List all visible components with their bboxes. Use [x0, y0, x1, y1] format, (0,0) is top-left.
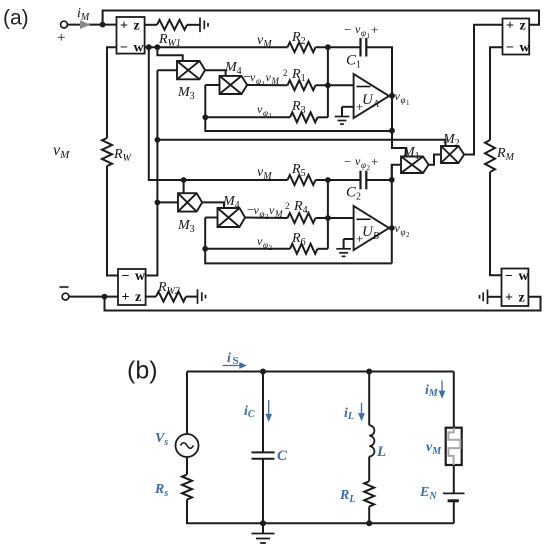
- op-amp UA: [354, 74, 389, 118]
- svg-text:1: 1: [269, 112, 273, 120]
- wire M4 out to R1: [247, 84, 287, 86]
- wire UB plus to ground: [343, 239, 345, 249]
- wire M1 out to M2 in: [429, 155, 441, 165]
- wire vphi vertical left rail: [146, 70, 158, 275]
- node input/top-rail junction: [100, 22, 106, 28]
- svg-text:2: 2: [406, 231, 410, 239]
- svg-text:w: w: [520, 41, 531, 56]
- resistor R5: [288, 175, 316, 185]
- svg-text:M4: M4: [224, 60, 242, 77]
- svg-text:C: C: [277, 448, 288, 464]
- svg-text:i: i: [227, 351, 231, 366]
- wire UB plus input: [344, 238, 354, 240]
- wire M3 out to M4 top input: [205, 70, 226, 76]
- wire vphi2 vertical: [391, 165, 393, 264]
- svg-text:iM: iM: [425, 383, 439, 399]
- wire lower M3 top input: [183, 180, 185, 193]
- svg-text:2: 2: [269, 244, 273, 252]
- op-amp UB: [354, 206, 389, 250]
- svg-text:R4: R4: [293, 199, 308, 216]
- svg-text:(b): (b): [127, 357, 158, 385]
- node vphi2 output: [389, 225, 395, 231]
- resistor RL: [364, 481, 374, 506]
- wire M4 out to R4: [245, 217, 287, 220]
- svg-text:φ: φ: [263, 108, 268, 118]
- node L branch top: [366, 369, 372, 375]
- node inverting input B top: [325, 177, 331, 183]
- node w-1: [146, 44, 152, 50]
- wire C branch bottom: [262, 459, 264, 524]
- wire bottom rail: [105, 297, 541, 311]
- resistor RS: [182, 475, 192, 500]
- conveyor block B3 (-w/+z): [118, 269, 146, 305]
- wire L branch top: [368, 372, 370, 426]
- svg-text:1: 1: [406, 99, 410, 107]
- svg-text:+: +: [506, 18, 514, 33]
- svg-text:w: w: [135, 269, 146, 284]
- wire lower M3 out to M4: [203, 202, 224, 208]
- svg-text:w: w: [134, 41, 145, 56]
- multiplier M4 lower: [218, 208, 246, 227]
- capacitor C2: [361, 171, 367, 190]
- wire UA output: [389, 95, 392, 97]
- node feedback junction A: [389, 128, 395, 134]
- current arrow i_M b: [440, 381, 445, 398]
- wire vphi1 line to M2 top: [157, 140, 445, 146]
- node C branch bottom: [260, 520, 266, 526]
- wire bottom rail b: [187, 500, 454, 524]
- wire UA plus to ground: [341, 107, 343, 117]
- wire R3 to node: [318, 116, 328, 118]
- svg-text:2: 2: [283, 68, 288, 78]
- node C2/M1 junction: [389, 177, 395, 183]
- wire RW2 to ground: [186, 296, 197, 298]
- wire C branch top: [262, 372, 264, 453]
- svg-text:RW: RW: [113, 147, 133, 164]
- node R3 line tap: [202, 114, 208, 120]
- resistor R3: [290, 112, 318, 122]
- wire vphi1 feedback to M4/R3: [205, 85, 392, 131]
- wire vM to M3 top input: [157, 47, 182, 61]
- conveyor block B1 (+z/-w): [117, 17, 145, 56]
- node w-2: [155, 44, 161, 50]
- svg-text:−: −: [122, 269, 130, 284]
- svg-text:iM: iM: [77, 6, 90, 23]
- wire lower M3 left input: [157, 201, 178, 203]
- wire vphi1 to R3: [205, 116, 290, 118]
- svg-text:iL: iL: [344, 406, 354, 422]
- svg-text:−: −: [344, 154, 351, 169]
- wire lower M4 left input: [205, 217, 217, 219]
- capacitor C1: [361, 38, 367, 57]
- svg-text:vM: vM: [426, 440, 442, 457]
- node C branch top: [260, 369, 266, 375]
- wire vphi2 to R6: [205, 248, 290, 250]
- svg-text:M: M: [271, 76, 280, 86]
- inductor L: [369, 425, 374, 456]
- svg-text:φ: φ: [401, 95, 406, 105]
- svg-text:M4: M4: [222, 194, 240, 211]
- wire vM line upper: [145, 46, 288, 48]
- wire VS to RS: [186, 457, 188, 475]
- resistor R1: [288, 80, 316, 90]
- wire B2 w to RM: [490, 47, 503, 140]
- svg-text:1: 1: [367, 32, 371, 40]
- wire inverting node vertical B: [327, 180, 329, 249]
- svg-text:z: z: [520, 18, 526, 33]
- wire vphi2 feedback line: [205, 218, 392, 264]
- svg-text:φ: φ: [256, 76, 261, 86]
- svg-text:2: 2: [367, 164, 371, 172]
- svg-text:+: +: [505, 290, 513, 305]
- resistor R2: [288, 42, 316, 52]
- wire RW1 to ground: [187, 24, 200, 26]
- svg-text:M3: M3: [177, 85, 195, 102]
- input terminal +: [61, 21, 68, 28]
- node lower M3 left input tap: [155, 200, 161, 206]
- ground UB: [336, 249, 351, 257]
- svg-text:RL: RL: [339, 488, 355, 505]
- wire R5 to C2: [316, 179, 361, 181]
- svg-text:C1: C1: [346, 53, 361, 71]
- current arrow i_M: [80, 20, 91, 29]
- wire R2 to C1: [316, 46, 361, 48]
- wire battery to bottom rail: [453, 501, 455, 524]
- wire memristor to battery: [453, 465, 455, 493]
- svg-text:−: −: [505, 269, 513, 284]
- node lower M3 top tap: [181, 177, 187, 183]
- current arrow i_L: [359, 403, 364, 420]
- output terminal -: [62, 293, 69, 300]
- svg-text:C2: C2: [346, 185, 361, 203]
- svg-text:φ: φ: [361, 160, 366, 170]
- wire R4 to op-amp B minus: [316, 217, 354, 219]
- resistor RM: [485, 140, 495, 172]
- multiplier M2: [441, 146, 464, 163]
- current arrow i_S: [223, 363, 246, 368]
- ground UA: [335, 117, 350, 125]
- resistor R6: [290, 244, 318, 254]
- multiplier M4 upper: [220, 76, 248, 94]
- battery EN: [443, 493, 465, 500]
- svg-text:R1: R1: [291, 67, 306, 84]
- wire M1 left input from vphi2 node: [392, 165, 401, 180]
- node R6 tap: [202, 246, 208, 252]
- wire top rail: [103, 11, 539, 25]
- svg-text:−: −: [120, 41, 128, 56]
- wire B1 z to RW1: [145, 24, 157, 26]
- conveyor block B2 (+z/-w): [503, 18, 531, 55]
- wire B1 w left down: [107, 47, 117, 138]
- wire R6 to node: [318, 248, 328, 250]
- node vphi1 tap: [155, 137, 161, 143]
- svg-text:R5: R5: [291, 162, 306, 179]
- svg-text:−: −: [506, 41, 514, 56]
- node inverting B: [325, 215, 331, 221]
- wire R1 to op-amp A minus: [316, 84, 354, 86]
- resistor RW: [102, 138, 112, 166]
- svg-text:EN: EN: [419, 485, 437, 502]
- svg-text:Vs: Vs: [155, 431, 168, 448]
- wire B3 z to RW2: [146, 296, 156, 298]
- node L branch bottom: [366, 520, 372, 526]
- multiplier M3 upper: [177, 61, 205, 79]
- memristor symbol: [446, 428, 462, 465]
- source VS: [176, 434, 199, 457]
- svg-text:+: +: [57, 30, 65, 46]
- svg-text:M1: M1: [402, 145, 420, 162]
- ground b: [262, 523, 264, 533]
- svg-text:φ: φ: [263, 240, 268, 250]
- svg-text:R3: R3: [291, 99, 306, 116]
- svg-text:vM: vM: [257, 33, 272, 50]
- wire RL to bottom: [368, 507, 370, 524]
- svg-text:φ: φ: [401, 227, 406, 237]
- svg-text:+: +: [371, 22, 378, 37]
- svg-text:RM: RM: [496, 146, 515, 163]
- wire top rail b: [187, 371, 454, 373]
- ground (sideways) after RW1: [200, 18, 208, 33]
- svg-text:φ: φ: [361, 28, 366, 38]
- wire RW down to B3 w: [107, 166, 118, 276]
- capacitor C: [252, 452, 275, 458]
- wire inverting node vertical A: [327, 47, 329, 117]
- current arrow i_C: [266, 400, 271, 420]
- wire M4 left input: [205, 84, 219, 86]
- svg-text:M: M: [274, 209, 283, 219]
- ground (sideways) before B4: [480, 290, 488, 305]
- svg-text:vM: vM: [53, 142, 70, 161]
- wire C2 to junction: [366, 179, 392, 181]
- svg-text:−: −: [344, 22, 351, 37]
- wire C1 right / feedback vertical to M1 top: [366, 47, 406, 156]
- svg-text:φ: φ: [260, 209, 265, 219]
- svg-text:M3: M3: [177, 218, 195, 235]
- wire memristor branch top: [453, 372, 455, 428]
- multiplier M1: [401, 157, 429, 174]
- svg-text:RW2: RW2: [157, 280, 180, 297]
- wire ground to B4 z: [488, 296, 502, 298]
- svg-text:z: z: [134, 19, 140, 34]
- wire L to RL: [368, 457, 370, 482]
- wire input to box: [68, 24, 117, 26]
- svg-text:R6: R6: [291, 231, 306, 248]
- svg-text:+: +: [122, 290, 130, 305]
- svg-text:+: +: [371, 154, 378, 169]
- resistor R4: [288, 213, 316, 223]
- svg-text:vM: vM: [257, 165, 272, 182]
- node bottom rail junction: [102, 294, 108, 300]
- wire UA plus input: [342, 106, 354, 108]
- resistor RW2: [156, 292, 186, 302]
- wire M2 out to B2 z: [464, 25, 502, 155]
- node inverting input A top: [325, 44, 331, 50]
- svg-text:w: w: [519, 269, 530, 284]
- multiplier M3 lower: [178, 193, 202, 211]
- wire top to VS: [186, 372, 188, 435]
- ground (sideways) after RW2: [198, 289, 206, 304]
- svg-text:z: z: [519, 290, 525, 305]
- svg-text:Rs: Rs: [154, 482, 168, 499]
- svg-text:+: +: [120, 19, 128, 34]
- conveyor block B4 (-w/+z): [502, 269, 530, 307]
- svg-text:z: z: [135, 290, 141, 305]
- node vphi1 output: [389, 93, 395, 99]
- svg-text:iC: iC: [244, 404, 255, 420]
- wire vM to lower line: [149, 47, 288, 180]
- wire UB output: [389, 227, 392, 229]
- wire M3 left input: [157, 69, 177, 71]
- resistor RW1: [157, 20, 187, 30]
- svg-text:2: 2: [285, 201, 290, 211]
- svg-text:R2: R2: [291, 30, 306, 47]
- svg-text:M2: M2: [442, 132, 460, 149]
- wire terminal to B3 z: [69, 296, 118, 298]
- svg-text:(a): (a): [3, 7, 29, 30]
- wire RM to B4 w: [490, 172, 502, 275]
- node inverting A: [325, 82, 331, 88]
- svg-text:L: L: [376, 444, 386, 460]
